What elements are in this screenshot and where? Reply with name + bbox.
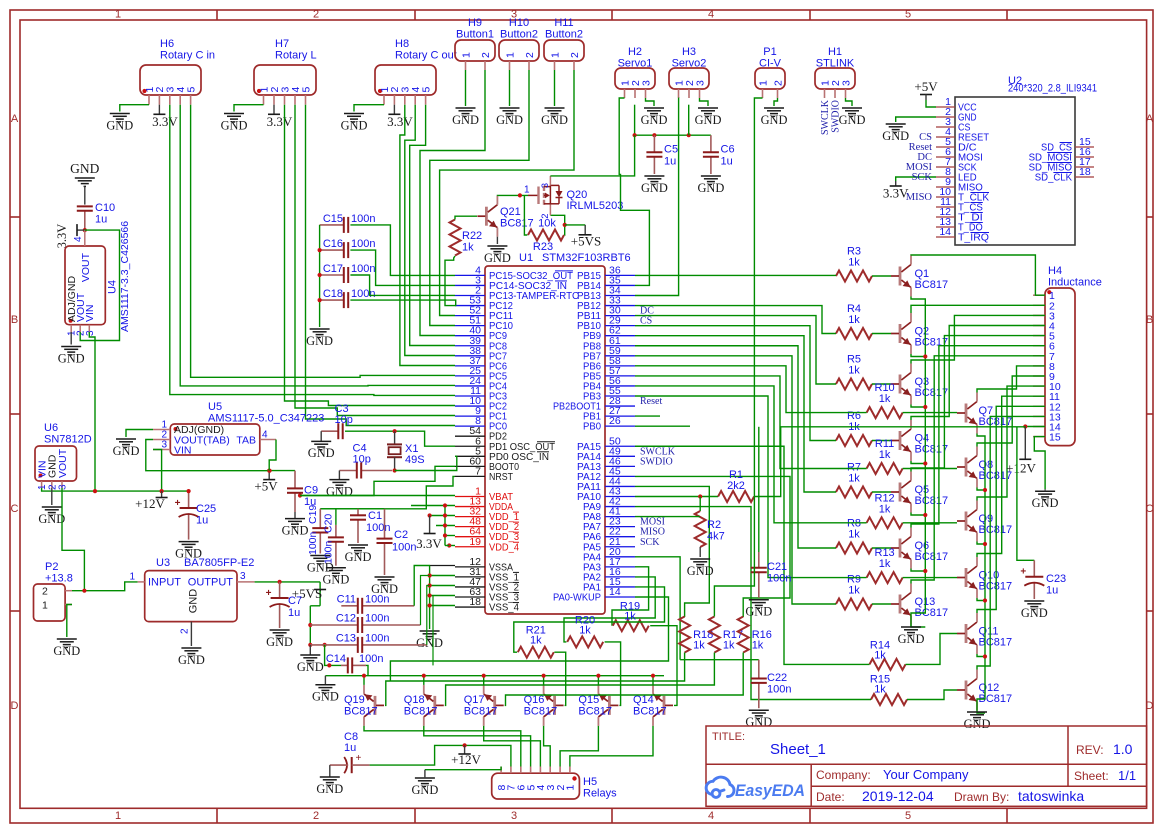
svg-text:1u: 1u [664,156,676,168]
U2 pin 2 GND [936,116,955,118]
wire Q16 emitter to rail [543,676,545,685]
svg-text:4: 4 [708,810,714,822]
wire VSSA row [430,565,455,567]
U3 pin3 stub [237,581,255,583]
power flag +12V at rail [161,491,163,497]
wire Q15 emitter to rail [597,676,599,685]
capacitor C16 100n [320,249,344,251]
svg-text:BC817: BC817 [500,218,534,230]
wire R3 to base [872,275,891,277]
resistor R7 1k [836,487,872,498]
wire H8.4 to U1 PC7 [405,105,455,356]
resistor R14 1k [870,659,906,670]
svg-text:18: 18 [1079,166,1091,178]
wire X1 bottom to PD0 [395,456,457,470]
svg-text:U4: U4 [107,280,119,294]
svg-text:+: + [266,588,272,599]
U1 pin 33 PB12 [605,305,635,307]
ground for C11-C13 [309,645,311,655]
wire U6 pin3 VOUT down to P2 node [62,488,84,591]
wire H6.1 to GND [120,105,149,112]
svg-text:Drawn By:: Drawn By: [954,790,1009,804]
U1 pin 34 PB13 [605,295,635,297]
svg-text:R2: R2 [707,519,721,531]
junction VDD_2 [443,523,447,527]
wire U1 row to R9 [635,356,836,604]
crystal X1 49S [394,431,396,444]
capacitor C14 100n [341,664,348,666]
svg-text:100n: 100n [351,213,375,225]
svg-text:VSS_4: VSS_4 [489,602,519,614]
wire PB0 stub [635,425,690,427]
resistor R12 1k [867,517,903,528]
U5 pin1 ADJ(GND) [153,429,170,431]
svg-text:H9: H9 [468,17,482,29]
U1 pin 60 BOOT0 [455,465,485,467]
wire +5V servo rail [634,105,636,136]
svg-text:+12V: +12V [135,496,165,511]
svg-text:4: 4 [708,9,714,21]
resistor R23 10k [528,230,564,241]
H4 pin 1 [1033,294,1045,296]
wire H9.2 to U1 PC9 [420,70,485,336]
U1 pin 38 PC7 [455,355,485,357]
wire U4 pin1 to GND [70,332,72,345]
capacitor C2 100n [384,509,386,539]
wire PA3 to R19 [612,567,649,626]
svg-text:100n: 100n [351,238,375,250]
wire U6 pin1 to +12V rail [42,488,189,491]
U1 pin 5 PD0 OSC_IN [455,455,485,457]
svg-text:GND: GND [58,351,85,365]
junction Q6 emitter [923,569,927,573]
wire Q2 collector to H4.2 [911,305,1045,313]
H4 pin 8 [1033,365,1045,367]
title block [706,726,1147,806]
svg-text:C2: C2 [394,529,408,541]
H4 pin 6 [1033,345,1045,347]
svg-text:BC817: BC817 [578,706,612,718]
wire R20 to Q15 base [605,642,621,706]
wire H8.3 to U1 PC6 [400,105,455,366]
wire H6.3 to U1 PC3 [170,105,455,396]
resistor R16 1k vertical [738,617,749,653]
U1 pin 1 VBAT [455,496,485,498]
capacitor C25 1u polarized [188,491,190,508]
svg-text:GND: GND [266,635,293,649]
wire VDDA row [411,505,455,507]
transistor Q4 BC817 [899,431,902,450]
svg-text:SCK: SCK [912,172,933,183]
wire Q6 emitter to rail [911,569,925,572]
wire R22 bottom to U1 PC12 [445,256,455,306]
svg-text:2: 2 [569,52,581,58]
junction Q3 emitter [923,405,927,409]
svg-text:1u: 1u [288,607,300,619]
wire H7.5 to U1 PC0 [306,105,456,426]
svg-text:AMS1117-3.3_C426566: AMS1117-3.3_C426566 [119,221,131,332]
wire PA1 to R20 [514,587,665,652]
junction 3.3V U4 node [83,228,87,232]
U1 pin 26 PB0 [605,425,635,427]
resistor R17 1k vertical [709,617,720,653]
svg-text:1u: 1u [95,214,107,226]
wire U1 row to R7 [635,336,836,492]
ground for C3 [320,431,322,441]
wire Q3 emitter to rail [911,405,925,408]
capacitor C15 100n [320,224,344,226]
wire R5 to base [872,383,891,385]
U1 pin 19 VDD_4 [455,546,485,548]
svg-text:5: 5 [905,9,911,21]
svg-text:100n: 100n [351,263,375,275]
svg-text:1k: 1k [579,625,591,637]
U1 pin 41 PA8 [605,516,635,518]
capacitor C10 1u [84,211,86,230]
wire Q17 collector to H5.4 [484,726,541,767]
svg-text:1k: 1k [848,473,860,485]
wire R4 to base [872,333,891,335]
junction C7 [278,580,282,584]
wire Q11 collector to H4.12 [977,406,1045,613]
svg-text:GND: GND [53,644,80,658]
U1 pin 9 PC1 [455,415,485,417]
svg-text:BC817: BC817 [915,495,949,507]
svg-text:100n: 100n [351,288,375,300]
svg-text:1u: 1u [721,156,733,168]
capacitor C18 100n [320,299,344,301]
wire BOOT0 staircase to VBAT node [300,466,455,495]
wire Q8 emitter to rail [977,488,985,491]
junction VDD_1 [443,513,447,517]
power flag 3.3V rotated at U4 [77,229,85,231]
wire H7.4 to U1 PC1 [295,105,455,416]
svg-text:1k: 1k [874,684,886,696]
wire 3.3V cap rail [320,508,384,510]
svg-text:1k: 1k [848,314,860,326]
wire R21 to Q16 base [554,652,565,705]
svg-text:3.3V: 3.3V [387,114,413,129]
U1 pin 25 PC5 [455,375,485,377]
svg-text:BC817: BC817 [344,706,378,718]
wire H3.3 to GND [700,98,709,106]
svg-text:2: 2 [480,52,492,58]
junction C13 b [323,643,327,647]
svg-text:GND: GND [416,636,443,650]
svg-text:H1: H1 [828,46,842,58]
svg-text:+: + [175,498,181,509]
svg-text:H6: H6 [160,38,174,50]
capacitor C6 1u [710,135,712,152]
H4 pin 3 [1033,314,1045,316]
wire Q9 emitter to rail [977,542,985,545]
svg-text:GND: GND [341,118,368,132]
svg-text:1: 1 [549,52,561,58]
IC U4 AMS1117-3.3_C426566 [65,246,105,325]
svg-text:BC817: BC817 [915,444,949,456]
svg-text:GND: GND [345,550,372,564]
svg-text:GND: GND [326,484,353,498]
svg-text:BC817: BC817 [633,706,667,718]
U2 pin 3 CS [936,126,955,128]
wire Q5 emitter to rail [911,513,925,516]
svg-text:Q15: Q15 [578,694,599,706]
svg-text:C11: C11 [337,594,356,606]
U2 pin 10 T_CLK [936,196,955,198]
junction +12V H5 [463,743,467,747]
U5 pin3 VIN [153,449,170,451]
U2 pin 9 MISO [936,186,955,188]
wire PA9 to R15 [635,507,871,700]
svg-text:REV:: REV: [1076,743,1104,757]
svg-text:GND: GND [1032,496,1059,510]
wire Q13 emitter to rail [911,625,925,628]
resistor R4 1k [836,328,872,339]
junction +5VS node [563,223,567,227]
svg-text:GND: GND [188,589,200,614]
U1 pin 16 PA2 [605,576,635,578]
svg-text:+13.8: +13.8 [45,573,73,585]
ground for C6 [701,176,721,184]
svg-text:Reset: Reset [640,396,662,407]
wire C16 to U1 PC14 [350,250,455,285]
U1 pin 14 PA0-WKUP [605,596,635,598]
U1 pin 22 PA6 [605,536,635,538]
svg-text:U1: U1 [519,252,533,264]
ground for left emitter rail [901,627,921,635]
U1 pin 4 PC15-SOC32_OUT [455,274,485,276]
svg-text:GND: GND [221,118,248,132]
resistor R15 1k [871,694,907,705]
wire Q14 emitter to rail [652,676,654,685]
svg-text:1: 1 [565,785,577,791]
resistor R22 1k [450,220,461,256]
wire Q19 collector to H5.6 [364,726,521,767]
ground at U3.2 [181,648,201,656]
svg-text:C5: C5 [664,144,678,156]
wire left emitter rail to GND [911,297,925,628]
wire PA8 stub [635,516,700,518]
junction Q14 emitter rail [651,674,655,678]
wire C11 rail from +5VS [310,605,320,607]
svg-text:GND: GND [882,129,909,143]
wire PA12 to R16 top [635,476,790,617]
U2 pin 13 T_DO [936,226,955,228]
ground for right emitter rail [967,712,987,720]
wire C13 to C14 drop [325,645,341,666]
wire Q9 collector to H4.10 [977,386,1045,500]
wire Q12 collector to H4.13 [977,416,1045,669]
svg-text:5: 5 [420,87,432,93]
svg-text:GND: GND [641,113,668,127]
ground for H11.1 [545,108,565,116]
transistor Q11 BC817 [965,624,968,643]
power flag +12V at H4 [1024,427,1026,460]
wire H3.2 down to rail [688,105,690,136]
svg-text:100n: 100n [307,531,319,555]
wire R13 to base [903,577,957,579]
svg-text:C1: C1 [368,510,382,522]
capacitor C7 1u polarized [279,582,281,598]
svg-text:GND: GND [306,334,333,348]
wire Q10 collector to H4.11 [977,396,1045,557]
U1 pin 43 PA10 [605,496,635,498]
svg-text:5: 5 [300,87,312,93]
svg-text:2: 2 [180,628,191,634]
wire +5V to U2 pin1 [926,100,936,107]
wire Q10 emitter to rail [977,598,985,601]
svg-text:GND: GND [113,444,140,458]
wire PA11 to R18 top [635,486,709,617]
transistor Q7 BC817 [965,404,968,423]
U1 pin 24 PC4 [455,385,485,387]
wire U1 row to R11 [635,376,867,469]
U1 pin 48 VDD_2 [455,526,485,528]
svg-text:14: 14 [609,586,621,598]
svg-text:2: 2 [313,810,319,822]
U5 pin4 TAB [260,439,276,441]
svg-text:10p: 10p [353,454,371,466]
svg-text:tatoswinka: tatoswinka [1018,788,1084,804]
svg-text:1/1: 1/1 [1118,768,1136,783]
wire H9.1 to GND [465,70,467,106]
wire P2.1 to GND [67,605,72,638]
svg-text:26: 26 [609,415,621,427]
resistor R20 1k [567,636,603,647]
svg-text:H5: H5 [583,776,597,788]
junction VSS_4 [428,603,432,607]
wire gate node down to R23 [524,195,527,235]
H4 pin 4 [1033,325,1045,327]
svg-text:+5VS: +5VS [571,233,601,248]
svg-text:GND: GND [745,605,772,619]
svg-text:+12V: +12V [451,752,481,767]
svg-text:BC817: BC817 [979,524,1013,536]
wire H2.1 to PB14 [619,98,649,285]
svg-text:49S: 49S [405,454,425,466]
ground for H8.1 [344,114,364,122]
resistor R11 1k [867,463,903,474]
svg-text:P2: P2 [45,561,58,573]
power flag 3.3V at VDD rail [429,516,431,534]
U1 pin 58 PB6 [605,365,635,367]
svg-text:VOUT: VOUT [80,252,92,282]
wire C3 to crystal node / PD1 [345,430,395,432]
U2 pin 14 T_IRQ [936,236,955,238]
svg-text:1.0: 1.0 [1113,741,1133,757]
wire Q12 emitter to rail [977,711,985,714]
svg-text:H2: H2 [628,46,642,58]
svg-text:GND: GND [312,690,339,704]
capacitor C17 100n [320,274,344,276]
junction Q4 emitter [923,461,927,465]
ground at U5.1 [116,439,136,447]
junction Q9 emitter [983,542,987,546]
svg-text:GND: GND [697,181,724,195]
wire R14 to Q11 base [906,634,958,665]
junction VDD_3 [443,533,447,537]
svg-text:STM32F103RBT6: STM32F103RBT6 [542,252,631,264]
junction +5V C9 [267,469,271,473]
U1 pin 53 PC12 [455,305,485,307]
power flag +5V left area [268,471,270,480]
junction C14 [327,663,331,667]
U1 pin 59 PB7 [605,355,635,357]
ground at H5.8 [415,778,435,786]
wire Q11 emitter to rail [977,654,985,657]
capacitor C1 100n [357,509,359,516]
svg-text:GND: GND [898,632,925,646]
U1 pin 30 PB11 [605,315,635,317]
resistor R8 1k [836,543,872,554]
svg-text:1: 1 [757,80,769,86]
wire H1.3 to GND [846,98,853,106]
junction VDDA [443,503,447,507]
U1 pin 18 VSS_4 [455,606,485,608]
power flag 3.3V at H6.2 [158,105,160,115]
svg-text:VDD_4: VDD_4 [489,541,519,553]
junction Q5 emitter [923,513,927,517]
H4 pin 14 [1033,426,1045,428]
svg-text:5: 5 [905,810,911,822]
svg-text:C: C [1146,503,1154,515]
svg-text:2: 2 [524,52,536,58]
U3 pin1 stub [138,581,145,583]
svg-text:GND: GND [484,251,511,265]
junction 3.3V stem [428,513,432,517]
svg-text:AMS1117-5.0_C347223: AMS1117-5.0_C347223 [208,413,324,425]
junction C16 gnd [318,248,322,252]
resistor R21 1k [518,647,554,658]
ground at P2.1 [57,639,77,647]
wire U1 row to R6 [635,326,836,441]
svg-text:1u: 1u [344,742,356,754]
junction VDD_4 [447,543,451,547]
U2 pin 17 SD_MISO [1075,166,1094,168]
svg-text:Button1: Button1 [456,29,494,41]
wire H3.1 to PB13 [635,98,679,296]
svg-text:Sheet:: Sheet: [1074,769,1109,783]
svg-text:Company:: Company: [816,768,871,782]
svg-text:C20: C20 [323,514,335,533]
U1 pin 64 VDD_3 [455,536,485,538]
junction Q15 emitter rail [596,674,600,678]
capacitor C9 1u [294,471,296,489]
ground for C4 [338,471,340,480]
transistor Q8 BC817 [965,458,968,477]
svg-text:Your Company: Your Company [883,767,969,782]
junction Q20 gate node [518,193,522,197]
transistor Q10 BC817 [965,568,968,587]
svg-text:Q17: Q17 [464,694,485,706]
svg-text:1: 1 [115,9,121,21]
svg-text:C22: C22 [767,672,787,684]
svg-text:1k: 1k [879,449,891,461]
svg-text:BC817: BC817 [915,387,949,399]
svg-text:INPUT: INPUT [148,577,181,589]
wire PA10 to R1 [635,496,718,498]
junction VBAT node [298,493,302,497]
U2 pin 1 VCC [936,106,955,108]
wire Q16 collector to H5.3 [544,726,551,767]
junction at H3.2 rail [687,133,691,137]
svg-text:3: 3 [58,484,69,490]
U1 pin 57 PB5 [605,375,635,377]
junction Q17 emitter rail [482,674,486,678]
svg-text:3: 3 [540,183,551,188]
wire R2 to GND [699,547,701,557]
wire PA3 to C22 and bottom [680,659,759,661]
